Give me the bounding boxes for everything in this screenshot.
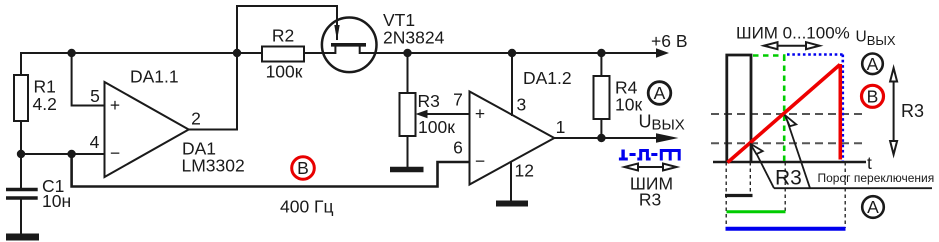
node A circled (schematic) bbox=[648, 82, 671, 105]
svg-text:6: 6 bbox=[453, 138, 463, 158]
node junction dot pin4-feedback bbox=[67, 150, 75, 158]
wire R1 bottom to node bbox=[20, 121, 22, 188]
svg-text:2N3824: 2N3824 bbox=[383, 28, 445, 48]
wire DA1.1 output to top bypass bbox=[189, 6, 337, 130]
drop dashed line 3 bbox=[784, 162, 786, 211]
svg-text:R3: R3 bbox=[901, 101, 924, 121]
leader arrow to lower threshold crossing bbox=[750, 144, 774, 189]
wire rail R2 to VT1 bbox=[304, 52, 335, 54]
resistor R2 bbox=[262, 47, 304, 62]
svg-text:R2: R2 bbox=[272, 26, 294, 46]
svg-text:B: B bbox=[867, 86, 879, 106]
svg-text:−: − bbox=[475, 151, 485, 171]
pwm range double arrow bbox=[625, 164, 677, 171]
svg-text:B: B bbox=[297, 158, 309, 178]
wire DA1.2 output bbox=[554, 137, 658, 139]
time axis bbox=[713, 161, 866, 164]
green dashed waveform bbox=[753, 56, 786, 162]
ground under R3 bbox=[390, 167, 424, 173]
node A circled (graph bottom) bbox=[862, 196, 884, 218]
resistor R4 bbox=[594, 53, 610, 138]
threshold dashed line upper bbox=[711, 113, 864, 115]
svg-text:7: 7 bbox=[453, 90, 463, 110]
threshold dashed line lower bbox=[711, 142, 864, 144]
svg-text:LM3302: LM3302 bbox=[182, 156, 245, 176]
+6V rail arrow bbox=[656, 48, 669, 58]
ground under pin 12 bbox=[496, 201, 528, 207]
pin 3 wire bbox=[511, 53, 513, 116]
svg-text:4.2: 4.2 bbox=[33, 94, 57, 114]
svg-text:UВЫХ: UВЫХ bbox=[639, 112, 685, 134]
wire rail VT1 to +6V arrow bbox=[360, 52, 658, 54]
node B circled (graph) bbox=[862, 85, 884, 107]
output arrow Uvyh bbox=[656, 133, 679, 143]
R3 range vertical double arrow bbox=[890, 68, 897, 155]
node junction dot rail-DA1.1 output bbox=[233, 49, 241, 57]
svg-text:R3: R3 bbox=[639, 190, 661, 210]
svg-text:R3: R3 bbox=[775, 167, 802, 190]
node junction dot output-R4 bbox=[597, 134, 605, 142]
drop dashed line 4 bbox=[844, 162, 846, 228]
node junction dot rail-R4 bbox=[597, 49, 605, 57]
svg-text:t: t bbox=[867, 153, 872, 173]
node junction dot R1-C1 bbox=[17, 150, 25, 158]
svg-text:UВЫХ: UВЫХ bbox=[856, 29, 896, 49]
drop dashed line 1 bbox=[725, 162, 727, 228]
transistor VT1 bbox=[322, 18, 377, 73]
node A circled (graph top) bbox=[862, 54, 883, 75]
blue dotted waveform bbox=[787, 55, 843, 162]
svg-text:400 Гц: 400 Гц bbox=[280, 197, 334, 217]
node A1 junction dot rail-pin5 bbox=[67, 49, 75, 57]
svg-text:−: − bbox=[110, 143, 120, 163]
svg-text:3: 3 bbox=[517, 95, 527, 115]
pwm pulse symbols blue bbox=[619, 150, 679, 161]
svg-text:10н: 10н bbox=[42, 191, 71, 211]
pin 12 wire bbox=[510, 162, 512, 202]
svg-text:+6 В: +6 В bbox=[651, 31, 688, 51]
svg-text:100к: 100к bbox=[418, 117, 455, 137]
svg-text:5: 5 bbox=[90, 86, 100, 106]
svg-text:R3: R3 bbox=[418, 91, 440, 111]
svg-text:+: + bbox=[110, 95, 120, 115]
black pulse waveform bbox=[727, 55, 751, 162]
resistor R1 bbox=[14, 75, 28, 121]
svg-text:12: 12 bbox=[515, 161, 534, 181]
node junction dot rail-R3 bbox=[403, 49, 411, 57]
op-amp DA1.2 bbox=[470, 92, 555, 185]
svg-text:A: A bbox=[654, 83, 666, 103]
svg-text:100к: 100к bbox=[266, 62, 303, 82]
svg-text:DA1.2: DA1.2 bbox=[523, 68, 572, 88]
drop dashed line 2 bbox=[749, 162, 751, 195]
leader arrow to upper threshold crossing bbox=[785, 115, 810, 188]
svg-text:DA1.1: DA1.1 bbox=[130, 67, 179, 87]
wire pin5 input bbox=[72, 53, 105, 106]
capacitor C1 bbox=[6, 188, 38, 192]
svg-text:A: A bbox=[867, 54, 879, 74]
svg-text:+: + bbox=[475, 104, 485, 124]
wire C1 to ground bbox=[20, 200, 22, 235]
red sawtooth ramp bbox=[728, 64, 841, 163]
wire pin4 input bbox=[21, 153, 105, 155]
op-amp DA1.1 bbox=[105, 82, 189, 177]
wire top rail left segment bbox=[21, 53, 262, 75]
svg-text:2: 2 bbox=[191, 109, 201, 129]
resistor R3 potentiometer bbox=[400, 53, 470, 167]
node junction dot rail-pin3 bbox=[508, 49, 516, 57]
blue output segment bbox=[726, 227, 846, 231]
svg-text:ШИМ 0...100%: ШИМ 0...100% bbox=[736, 24, 850, 43]
pwm width double arrow bbox=[764, 42, 820, 49]
svg-text:1: 1 bbox=[556, 117, 566, 137]
svg-text:4: 4 bbox=[90, 132, 100, 152]
black output segment bbox=[725, 194, 753, 197]
ground left bbox=[6, 234, 39, 241]
green output segment bbox=[727, 210, 786, 213]
svg-text:A: A bbox=[867, 197, 879, 217]
node B circled red bbox=[292, 157, 315, 180]
svg-text:Порог переключения: Порог переключения bbox=[818, 171, 935, 185]
wire feedback line bbox=[72, 154, 470, 187]
